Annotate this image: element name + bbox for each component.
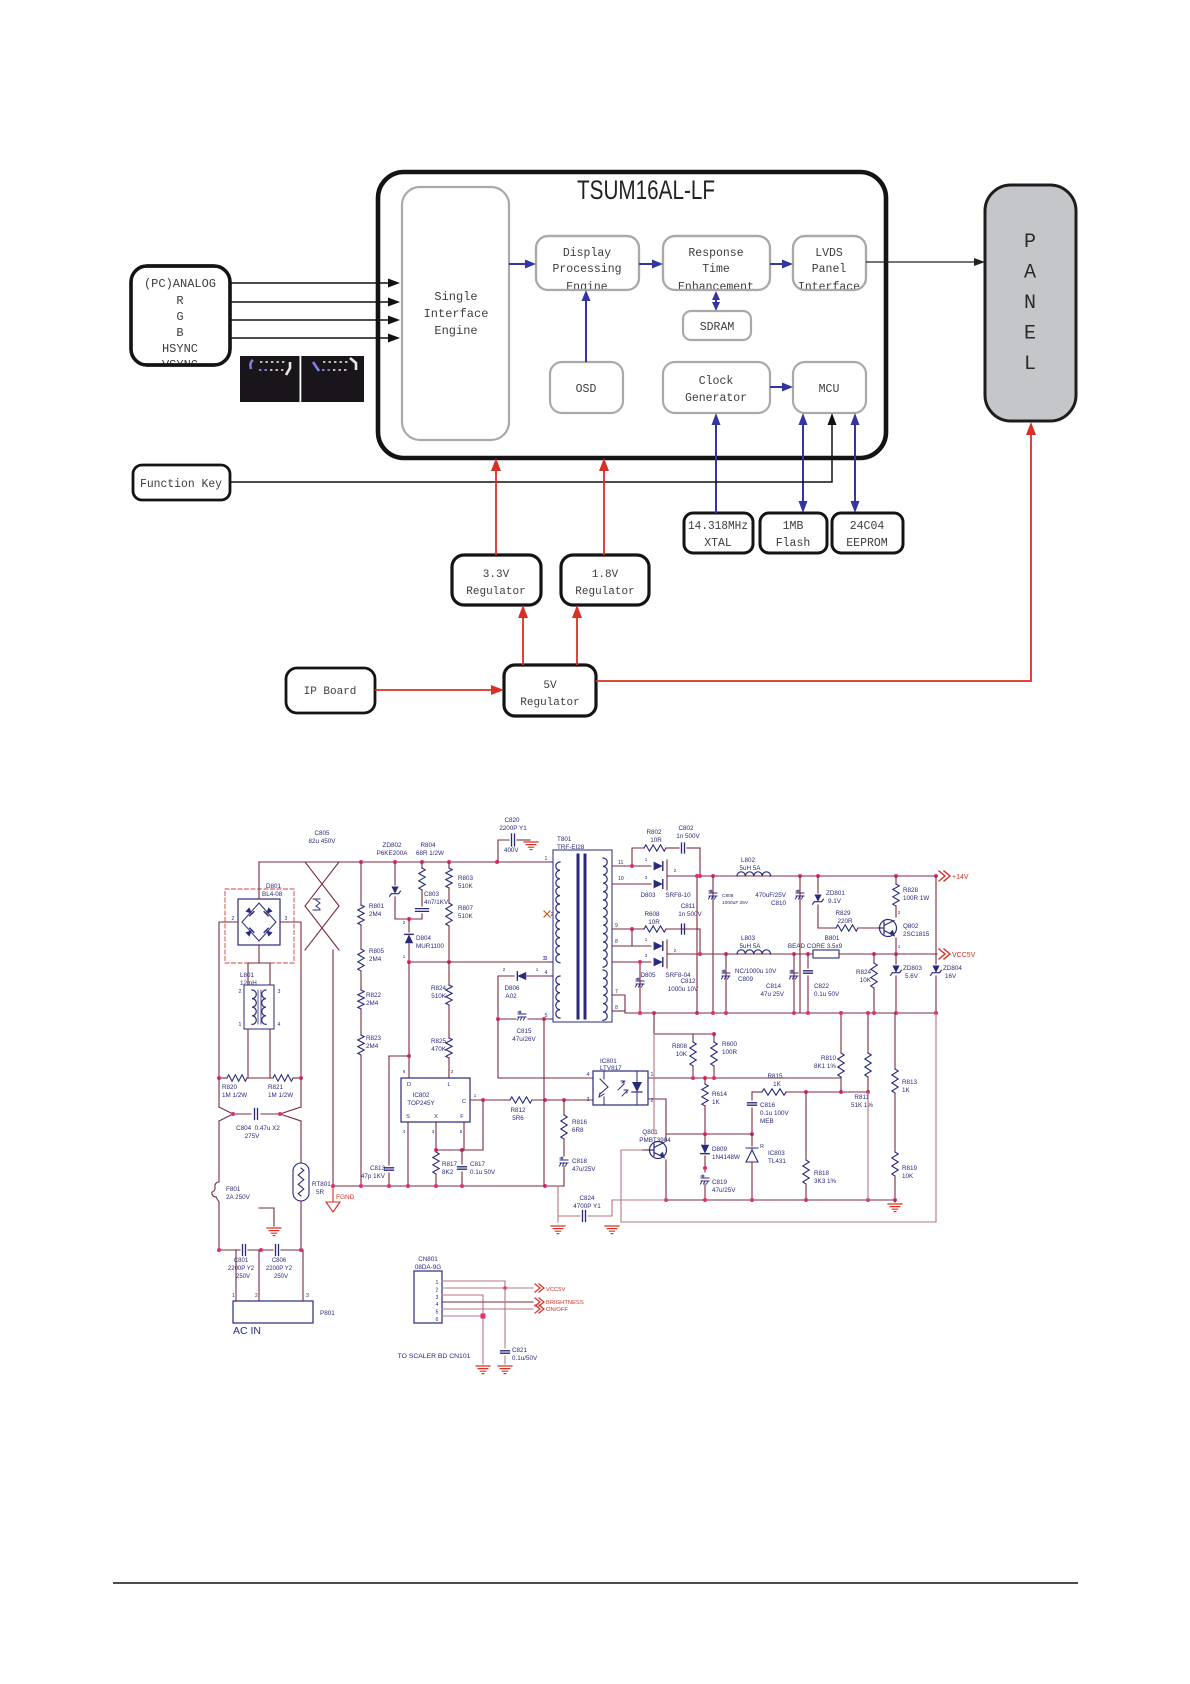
capacitor C819 47u/25V bbox=[701, 1175, 737, 1200]
svg-text:2200P Y1: 2200P Y1 bbox=[499, 825, 527, 832]
capacitor C814 47u 25V bbox=[761, 954, 798, 1013]
svg-text:Display: Display bbox=[563, 247, 611, 260]
capacitor C824 4700P Y1 bbox=[558, 1186, 666, 1222]
svg-text:10K: 10K bbox=[902, 1173, 914, 1180]
svg-text:MUR1100: MUR1100 bbox=[416, 943, 444, 950]
resistor R600 100R bbox=[711, 1034, 738, 1078]
resistor R824 10K bbox=[856, 954, 877, 1013]
svg-text:BL4-08: BL4-08 bbox=[262, 891, 283, 898]
svg-text:R821: R821 bbox=[268, 1084, 284, 1091]
wire CN801 pin5 ON/OFF bbox=[442, 1308, 533, 1310]
svg-text:2: 2 bbox=[551, 912, 554, 918]
svg-text:R802: R802 bbox=[646, 829, 662, 836]
svg-text:C802: C802 bbox=[678, 825, 694, 832]
svg-text:D806: D806 bbox=[504, 985, 520, 992]
svg-text:E: E bbox=[1024, 323, 1036, 346]
capacitor C810 470uF/25V bbox=[755, 876, 804, 1013]
svg-text:C809: C809 bbox=[738, 976, 754, 983]
svg-text:RT801: RT801 bbox=[312, 1181, 331, 1188]
svg-text:400V: 400V bbox=[504, 847, 519, 854]
svg-text:47u/25V: 47u/25V bbox=[712, 1187, 736, 1194]
wire 5V to 1.8V regulator bbox=[572, 605, 582, 665]
svg-text:C819: C819 bbox=[712, 1179, 728, 1186]
block SDRAM bbox=[683, 311, 751, 340]
svg-text:1000u 10V: 1000u 10V bbox=[668, 986, 699, 993]
resistor R801 2M4 bbox=[358, 862, 385, 925]
fuse F801 2A 250V bbox=[212, 1121, 251, 1228]
svg-text:VCC5V: VCC5V bbox=[546, 1287, 565, 1293]
svg-text:1M 1/2W: 1M 1/2W bbox=[222, 1092, 247, 1099]
svg-text:3: 3 bbox=[432, 1129, 435, 1134]
svg-text:10: 10 bbox=[618, 876, 624, 882]
svg-text:250V: 250V bbox=[236, 1274, 250, 1280]
capacitor C802 1n 500V bbox=[676, 825, 700, 876]
svg-text:47u/26V: 47u/26V bbox=[512, 1036, 536, 1043]
svg-text:4: 4 bbox=[278, 1022, 281, 1028]
capacitor C818 47u/25V bbox=[560, 1157, 597, 1186]
svg-text:C820: C820 bbox=[504, 817, 520, 824]
wire CN801 pin4 BRIGHTNESS bbox=[442, 1301, 533, 1303]
svg-text:16V: 16V bbox=[945, 973, 957, 980]
svg-text:470K: 470K bbox=[431, 1046, 447, 1053]
diode D803 SRF8-10 bbox=[612, 857, 691, 899]
svg-text:3.3V: 3.3V bbox=[483, 569, 510, 581]
svg-text:P: P bbox=[1024, 231, 1036, 254]
block 24C04 EEPROM bbox=[832, 513, 903, 553]
svg-text:C806: C806 bbox=[272, 1258, 287, 1264]
block 3.3V Regulator bbox=[452, 555, 541, 605]
svg-text:R815: R815 bbox=[767, 1073, 783, 1080]
snubber R802 10R bbox=[632, 829, 679, 866]
svg-text:Regulator: Regulator bbox=[575, 586, 634, 598]
wire RTE-SDRAM bidirectional bbox=[712, 291, 720, 311]
svg-text:BRIGHTNESS: BRIGHTNESS bbox=[546, 1300, 584, 1306]
wire feedback outer loop bbox=[621, 1013, 936, 1222]
IC IC802 TOP245Y bbox=[389, 962, 477, 1165]
svg-text:R807: R807 bbox=[458, 905, 474, 912]
svg-text:CN801: CN801 bbox=[418, 1256, 438, 1263]
capacitor C816 0.1u 100V MEB bbox=[748, 1092, 790, 1136]
svg-text:510K: 510K bbox=[458, 883, 474, 890]
svg-text:+14V: +14V bbox=[952, 874, 969, 881]
svg-text:1: 1 bbox=[536, 967, 539, 972]
svg-text:R810: R810 bbox=[821, 1055, 837, 1062]
svg-text:1000uF 25V: 1000uF 25V bbox=[722, 900, 749, 906]
svg-text:D801: D801 bbox=[266, 883, 282, 890]
wire bridge connections bbox=[219, 862, 301, 1078]
svg-text:2200P Y2: 2200P Y2 bbox=[266, 1266, 293, 1272]
svg-text:2: 2 bbox=[503, 967, 506, 972]
wire CN801 pin3 bbox=[442, 1295, 483, 1352]
svg-text:Q801: Q801 bbox=[642, 1129, 658, 1136]
net VCC5V out bbox=[535, 1284, 565, 1293]
svg-text:08DA-9G: 08DA-9G bbox=[415, 1264, 441, 1271]
svg-text:C816: C816 bbox=[760, 1102, 776, 1109]
svg-text:F801: F801 bbox=[226, 1186, 241, 1193]
capacitor C808 1000uF 25V bbox=[709, 876, 749, 1013]
resistor R828 100R 1W bbox=[893, 876, 930, 917]
svg-text:1MB: 1MB bbox=[783, 520, 804, 533]
svg-text:D804: D804 bbox=[416, 935, 432, 942]
svg-text:Regulator: Regulator bbox=[520, 697, 579, 709]
wire primary HV bus bbox=[259, 860, 549, 864]
svg-text:R: R bbox=[760, 1144, 764, 1150]
capacitor C820 2200P Y1 bbox=[498, 817, 530, 862]
svg-text:R801: R801 bbox=[369, 903, 385, 910]
svg-text:1: 1 bbox=[232, 1293, 235, 1299]
svg-text:2: 2 bbox=[674, 948, 677, 953]
svg-text:R817: R817 bbox=[442, 1161, 458, 1168]
inductor L803 5uH 5A bbox=[737, 935, 771, 954]
svg-text:8: 8 bbox=[615, 1005, 618, 1011]
svg-text:R823: R823 bbox=[366, 1035, 382, 1042]
capacitor C806 2200P Y2 bbox=[266, 1228, 303, 1280]
svg-text:3: 3 bbox=[436, 1295, 439, 1301]
svg-text:2M4: 2M4 bbox=[369, 956, 382, 963]
svg-text:TO SCALER BD CN101: TO SCALER BD CN101 bbox=[398, 1353, 471, 1360]
svg-text:IP Board: IP Board bbox=[304, 686, 357, 698]
svg-text:VCC5V: VCC5V bbox=[952, 952, 976, 959]
wire MCU-EEPROM bidirectional bbox=[851, 413, 860, 513]
zener ZD803 5.6V bbox=[891, 954, 923, 1013]
capacitor C817 0.1u 50V bbox=[436, 1122, 496, 1186]
net ON/OFF out bbox=[535, 1305, 568, 1313]
diode D809 1N4148W bbox=[701, 1134, 740, 1172]
resistor R810 8K1 1% bbox=[814, 1011, 844, 1092]
svg-text:82u 450V: 82u 450V bbox=[309, 838, 337, 845]
svg-text:47u/25V: 47u/25V bbox=[572, 1166, 596, 1173]
resistor R614 1K bbox=[702, 1076, 728, 1134]
inductor L801 12mH bbox=[239, 972, 281, 1029]
svg-text:1: 1 bbox=[239, 1022, 242, 1028]
wire RTE to LVDS Panel Interface bbox=[770, 260, 793, 269]
svg-text:D: D bbox=[407, 1082, 411, 1088]
transistor Q802 2SC1815 bbox=[878, 920, 930, 955]
svg-text:4700P Y1: 4700P Y1 bbox=[573, 1203, 601, 1210]
svg-text:5: 5 bbox=[460, 1129, 463, 1134]
resistor R818 3K3 1% bbox=[803, 1092, 837, 1200]
capacitor C811 1n 500V bbox=[678, 903, 702, 934]
svg-text:IC802: IC802 bbox=[413, 1092, 430, 1099]
wire T801 pin3 line bbox=[407, 956, 549, 964]
svg-text:MEB: MEB bbox=[760, 1118, 774, 1125]
svg-text:14.318MHz: 14.318MHz bbox=[688, 520, 748, 533]
net VCC5V bbox=[939, 949, 976, 959]
svg-text:5.6V: 5.6V bbox=[905, 973, 919, 980]
ground Y1 bbox=[524, 842, 538, 850]
diode D806 A02 bbox=[498, 967, 549, 1000]
svg-text:1K: 1K bbox=[902, 1087, 911, 1094]
svg-text:HSYNC: HSYNC bbox=[162, 342, 198, 356]
svg-text:C813: C813 bbox=[370, 1165, 386, 1172]
inductor L802 5uH 5A bbox=[737, 857, 771, 876]
svg-text:ZD801: ZD801 bbox=[826, 890, 845, 897]
svg-text:R811: R811 bbox=[854, 1094, 869, 1101]
svg-text:2: 2 bbox=[451, 1069, 454, 1074]
capacitor C805 (crossed) bbox=[305, 830, 339, 1186]
svg-text:R820: R820 bbox=[222, 1084, 238, 1091]
block Clock Generator bbox=[663, 362, 770, 413]
svg-text:1: 1 bbox=[651, 1072, 654, 1078]
resistor R819 10K bbox=[892, 1152, 918, 1200]
resistor R803 510K bbox=[446, 862, 474, 890]
resistor R817 8K2 bbox=[433, 1122, 458, 1186]
svg-text:8K2: 8K2 bbox=[442, 1169, 454, 1176]
wire IC802 C pin to R812 bbox=[470, 1098, 510, 1150]
svg-text:5: 5 bbox=[436, 1310, 439, 1316]
svg-text:2: 2 bbox=[239, 989, 242, 995]
svg-text:1: 1 bbox=[403, 954, 406, 959]
photo thumbnail VGA connector right bbox=[300, 356, 365, 402]
svg-text:47u 25V: 47u 25V bbox=[761, 991, 785, 998]
svg-text:R824: R824 bbox=[431, 985, 447, 992]
wire Clock Generator to MCU bbox=[770, 383, 793, 392]
svg-text:XTAL: XTAL bbox=[704, 537, 732, 550]
svg-text:4: 4 bbox=[403, 1129, 406, 1134]
svg-text:0.1u 100V: 0.1u 100V bbox=[760, 1110, 790, 1117]
wire aux to IC801 pin4 bbox=[498, 1019, 593, 1078]
svg-text:R803: R803 bbox=[458, 875, 474, 882]
svg-text:C808: C808 bbox=[722, 893, 734, 899]
resistor R811 51K 1% bbox=[851, 1011, 873, 1109]
wire secondary ground bus bbox=[625, 1011, 938, 1015]
svg-text:C805: C805 bbox=[314, 830, 330, 837]
svg-text:PMBT3904: PMBT3904 bbox=[639, 1137, 671, 1144]
wire DPE to Response Time Enhancement bbox=[639, 260, 663, 269]
svg-text:1: 1 bbox=[645, 857, 648, 862]
wire L801 to RC row bbox=[248, 1029, 270, 1078]
svg-text:1.8V: 1.8V bbox=[592, 569, 619, 581]
svg-text:1: 1 bbox=[645, 937, 648, 942]
resistor R815 1K bbox=[752, 1073, 870, 1095]
capacitor C821 0.1u/50V bbox=[501, 1288, 539, 1364]
svg-text:1: 1 bbox=[898, 944, 901, 949]
svg-text:ZD804: ZD804 bbox=[943, 965, 962, 972]
resistor R820 1M 1/2W bbox=[217, 1075, 273, 1099]
capacitor C801 2200P Y2 bbox=[217, 1228, 273, 1280]
svg-text:8: 8 bbox=[615, 939, 618, 945]
svg-text:A02: A02 bbox=[505, 993, 517, 1000]
svg-text:2: 2 bbox=[436, 1287, 439, 1293]
capacitor C813 47p 1KV bbox=[361, 1165, 394, 1186]
svg-text:1K: 1K bbox=[712, 1099, 721, 1106]
svg-text:R: R bbox=[176, 294, 183, 308]
svg-text:250V: 250V bbox=[274, 1274, 288, 1280]
block Function Key bbox=[133, 465, 230, 500]
svg-text:510K: 510K bbox=[458, 913, 474, 920]
svg-text:5V: 5V bbox=[543, 680, 557, 692]
block LVDS Panel Interface bbox=[793, 236, 866, 294]
svg-text:10K: 10K bbox=[676, 1051, 688, 1058]
svg-text:R813: R813 bbox=[902, 1079, 918, 1086]
bridge rectifier D801 BL4-08 bbox=[225, 883, 294, 963]
svg-text:TSUM16AL-LF: TSUM16AL-LF bbox=[577, 175, 715, 205]
svg-text:C817: C817 bbox=[470, 1161, 486, 1168]
wire 5V regulator to PANEL bbox=[596, 422, 1036, 681]
svg-text:C821: C821 bbox=[512, 1347, 528, 1354]
zener ZD804 16V bbox=[931, 876, 963, 1013]
svg-text:9: 9 bbox=[615, 923, 618, 929]
svg-text:MCU: MCU bbox=[819, 383, 840, 396]
svg-text:Interface: Interface bbox=[424, 307, 489, 321]
resistor R812 5R6 bbox=[510, 1097, 593, 1122]
connector CN801 08DA-9G bbox=[414, 1256, 442, 1323]
svg-text:2: 2 bbox=[232, 916, 235, 922]
svg-text:C818: C818 bbox=[572, 1158, 588, 1165]
svg-text:C822: C822 bbox=[814, 983, 830, 990]
svg-text:100R: 100R bbox=[722, 1049, 738, 1056]
svg-text:11: 11 bbox=[618, 860, 623, 866]
svg-text:G: G bbox=[176, 310, 183, 324]
wire primary ground bus bbox=[331, 1184, 564, 1188]
svg-text:100R 1W: 100R 1W bbox=[903, 895, 929, 902]
svg-text:1n 500V: 1n 500V bbox=[678, 911, 702, 918]
svg-text:AC IN: AC IN bbox=[233, 1325, 261, 1337]
svg-text:IC801: IC801 bbox=[600, 1058, 617, 1065]
svg-text:Clock: Clock bbox=[699, 375, 734, 388]
svg-text:Q802: Q802 bbox=[903, 923, 919, 930]
svg-text:SDRAM: SDRAM bbox=[700, 321, 735, 334]
svg-text:3: 3 bbox=[306, 1293, 309, 1299]
svg-text:8K1 1%: 8K1 1% bbox=[814, 1063, 836, 1070]
svg-text:R804: R804 bbox=[420, 842, 436, 849]
svg-text:N: N bbox=[1024, 292, 1036, 315]
svg-text:1N4148W: 1N4148W bbox=[712, 1154, 740, 1161]
svg-text:BEAD CORE 3.5x9: BEAD CORE 3.5x9 bbox=[788, 943, 843, 950]
svg-text:C815: C815 bbox=[516, 1028, 532, 1035]
svg-text:R819: R819 bbox=[902, 1165, 918, 1172]
block OSD bbox=[550, 362, 623, 413]
svg-text:LVDS: LVDS bbox=[815, 247, 843, 260]
svg-text:Flash: Flash bbox=[776, 537, 811, 550]
svg-text:L803: L803 bbox=[741, 935, 756, 942]
pin 2 NC mark bbox=[544, 911, 554, 918]
resistor R805 2M4 bbox=[358, 925, 385, 971]
connector P801 AC inlet bbox=[232, 1250, 335, 1323]
svg-text:ON/OFF: ON/OFF bbox=[546, 1307, 568, 1313]
block TSUM16AL-LF outline bbox=[378, 172, 886, 458]
svg-text:F: F bbox=[460, 1114, 464, 1120]
svg-text:R600: R600 bbox=[722, 1041, 738, 1048]
svg-text:Generator: Generator bbox=[685, 392, 747, 405]
svg-text:S: S bbox=[406, 1114, 410, 1120]
svg-text:0.1u 50V: 0.1u 50V bbox=[814, 991, 840, 998]
wire feedback ground bus bbox=[664, 1092, 897, 1202]
svg-text:C: C bbox=[462, 1099, 466, 1105]
wire RGB/sync analog inputs bbox=[230, 279, 400, 343]
wire 1.8V regulator to TSUM bbox=[599, 458, 609, 555]
svg-text:SRF8-10: SRF8-10 bbox=[665, 892, 691, 899]
svg-text:L: L bbox=[1024, 353, 1036, 376]
wire Q801 collector node bbox=[654, 1034, 752, 1136]
svg-text:3: 3 bbox=[645, 953, 648, 958]
svg-text:6: 6 bbox=[403, 1069, 406, 1074]
svg-text:10K: 10K bbox=[860, 977, 872, 984]
svg-text:R805: R805 bbox=[369, 948, 385, 955]
resistor R813 1K bbox=[892, 1013, 918, 1152]
svg-text:R614: R614 bbox=[712, 1091, 728, 1098]
wire aux return bbox=[543, 1019, 545, 1186]
svg-text:L801: L801 bbox=[240, 972, 255, 979]
resistor R807 510K bbox=[446, 888, 474, 964]
svg-text:2: 2 bbox=[403, 920, 406, 925]
wire XTAL to Clock Generator bbox=[712, 413, 721, 513]
svg-text:Response: Response bbox=[688, 247, 743, 260]
svg-text:R828: R828 bbox=[903, 887, 919, 894]
ground CN801 pin3 bbox=[476, 1352, 490, 1374]
footer rule bbox=[113, 1582, 1078, 1584]
ground C824 right bbox=[605, 1226, 619, 1234]
svg-text:275V: 275V bbox=[245, 1133, 261, 1140]
ground C824 left bbox=[551, 1226, 565, 1234]
IC IC803 TL431 bbox=[746, 1134, 786, 1200]
svg-text:Processing: Processing bbox=[552, 263, 621, 276]
svg-text:3: 3 bbox=[278, 989, 281, 995]
wire IC802 S pin bbox=[407, 1122, 409, 1186]
block Single Interface Engine bbox=[402, 187, 509, 440]
svg-text:3: 3 bbox=[545, 956, 548, 962]
wire CN801 pin6 bbox=[442, 1314, 486, 1319]
resistor R824 510K bbox=[431, 962, 452, 1005]
svg-text:3: 3 bbox=[587, 1097, 590, 1103]
svg-text:4n7/1KV: 4n7/1KV bbox=[424, 899, 449, 906]
svg-text:B: B bbox=[176, 326, 183, 340]
snubber R608 10R bbox=[612, 911, 700, 954]
wire T801 pin7/8 to gnd bus bbox=[612, 995, 625, 1013]
wire OSD to DPE bbox=[582, 290, 591, 362]
ground C821 bbox=[498, 1366, 512, 1374]
capacitor C804 0.47u X2 bbox=[219, 1078, 301, 1140]
transistor Q801 PMBT3904 bbox=[639, 1129, 671, 1166]
svg-text:2M4: 2M4 bbox=[366, 1043, 379, 1050]
svg-text:10R: 10R bbox=[650, 837, 662, 844]
svg-text:68R 1/2W: 68R 1/2W bbox=[416, 850, 444, 857]
wire IP Board to 5V regulator bbox=[375, 685, 504, 695]
diode D804 MUR1100 bbox=[403, 919, 445, 962]
svg-text:6: 6 bbox=[436, 1317, 439, 1323]
net +14V bbox=[939, 871, 969, 881]
svg-text:51K 1%: 51K 1% bbox=[851, 1102, 873, 1109]
block Display Processing Engine bbox=[536, 236, 639, 294]
svg-text:47p 1KV: 47p 1KV bbox=[361, 1173, 386, 1180]
svg-text:R824: R824 bbox=[856, 969, 872, 976]
capacitor C809 NC/1000u 10V bbox=[722, 954, 778, 1013]
spark gap bbox=[313, 899, 320, 910]
wire IC801 pin1 line bbox=[648, 1076, 841, 1080]
svg-text:6R8: 6R8 bbox=[572, 1127, 584, 1134]
resistor R821 1M 1/2W bbox=[268, 1075, 303, 1099]
photo thumbnail VGA connector left bbox=[240, 356, 300, 402]
block (PC)ANALOG input bbox=[131, 266, 230, 372]
svg-text:Single: Single bbox=[434, 290, 477, 304]
ground AC bbox=[259, 1208, 281, 1236]
zener ZD802 P6KE200A bbox=[377, 842, 422, 921]
svg-text:2: 2 bbox=[898, 910, 901, 915]
svg-text:P801: P801 bbox=[320, 1310, 335, 1317]
svg-text:7: 7 bbox=[615, 989, 618, 995]
svg-text:ZD803: ZD803 bbox=[903, 965, 922, 972]
svg-text:NC/1000u 10V: NC/1000u 10V bbox=[735, 968, 777, 975]
wire VCC5V rail bbox=[672, 952, 937, 956]
svg-text:1: 1 bbox=[545, 856, 548, 862]
svg-text:Time: Time bbox=[702, 263, 730, 276]
block 1.8V Regulator bbox=[561, 555, 649, 605]
svg-text:R825: R825 bbox=[431, 1038, 447, 1045]
svg-text:A: A bbox=[1024, 262, 1036, 285]
transformer T801 TRF-EI28 bbox=[545, 836, 624, 1022]
svg-text:B801: B801 bbox=[825, 935, 840, 942]
svg-text:3K3 1%: 3K3 1% bbox=[814, 1178, 836, 1185]
